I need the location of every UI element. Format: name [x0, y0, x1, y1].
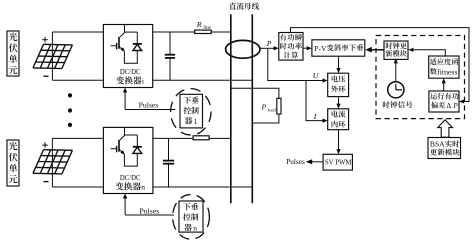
svg-text:Pulses: Pulses [139, 100, 159, 109]
svg-text:P: P [452, 101, 458, 110]
BSA dashed box [376, 36, 465, 119]
arrow cloop to svpwm [336, 130, 340, 155]
PV unit n label box [7, 140, 19, 186]
BSA block arrow [438, 120, 453, 137]
fitness text [430, 58, 458, 76]
svg-text:load: load [268, 107, 277, 112]
droop controller n dashed ellipse [173, 194, 210, 239]
clock update text [386, 42, 407, 56]
arrow fitness to clockupdate [408, 48, 445, 56]
label U [313, 71, 320, 80]
wire converter1 out bottom [153, 79, 253, 81]
fitness box [429, 56, 459, 78]
diode Dn [125, 135, 142, 153]
label Pulses out [286, 157, 305, 166]
PV unit 1 label box [7, 31, 19, 76]
feedback wire P to deltaP [291, 28, 470, 104]
svg-text:P: P [266, 39, 272, 48]
power sensor ellipse [226, 40, 260, 58]
load resistor Pload [277, 98, 281, 114]
PV1 plus terminal [42, 37, 48, 43]
solar panel PVn [33, 150, 72, 174]
svg-text:SV PWM: SV PWM [325, 158, 352, 167]
label DC/DC n [120, 173, 141, 182]
DC bus line left [230, 14, 232, 203]
svg-text:i: i [142, 77, 144, 86]
wire P measurement [260, 46, 279, 50]
svg-text:I: I [313, 112, 317, 121]
wire converter-n to Rline-n [153, 137, 193, 139]
DC bus line right [251, 14, 253, 203]
wire Rline1 to bus [211, 31, 231, 33]
svg-text:P: P [261, 103, 267, 112]
PVn minus terminal [44, 181, 49, 183]
label DC/DC 1 [120, 67, 141, 76]
resistor Rline-n [193, 136, 209, 140]
svg-text:Δ: Δ [446, 101, 451, 110]
arrow clock to clockupdate [394, 58, 398, 81]
svg-text:BSA: BSA [430, 140, 445, 149]
label Pulses n [140, 206, 160, 215]
svg-text:R: R [196, 20, 202, 29]
SV PWM text [325, 158, 352, 167]
svg-text:1: 1 [194, 117, 198, 126]
pulses wire 1 [123, 88, 175, 110]
voltage outer loop box [328, 73, 349, 96]
label Pload [261, 103, 277, 113]
load branch wire bottom [252, 114, 279, 123]
droop controller n text [183, 203, 198, 232]
svg-text:n: n [193, 223, 197, 232]
voltage outer loop text [331, 75, 345, 92]
PVn plus terminal [42, 142, 48, 148]
arrow clockupdate to droop-rate [365, 47, 384, 53]
wire converter-n out bottom [153, 186, 252, 188]
DC/DC converter 1 box [103, 25, 152, 88]
current inner loop box [328, 109, 349, 130]
wire converter1 to Rline [153, 31, 195, 33]
label P [266, 39, 272, 48]
DC/DC converter n box [103, 127, 152, 193]
clock update box [384, 41, 408, 59]
arrow calc to droop-rate [303, 46, 312, 50]
BSA box [428, 138, 461, 159]
droop controller 1 dashed ellipse [171, 89, 211, 135]
IGBT Qn [111, 127, 138, 166]
label converter 1 [116, 76, 144, 85]
ellipsis dots [68, 93, 72, 127]
svg-text:line: line [203, 25, 211, 31]
PV1 minus terminal [44, 75, 49, 77]
droop controller 1 text [184, 96, 199, 126]
arrow droop-rate to vloop [336, 56, 340, 73]
arrow vloop to cloop [336, 97, 340, 109]
svg-text:DC/DC: DC/DC [120, 173, 141, 182]
solar panel PV1 [33, 44, 72, 68]
resistor Rline1 [195, 30, 212, 33]
BSA text [430, 140, 460, 156]
svg-text:DC/DC: DC/DC [120, 67, 141, 76]
svg-text:Pulses: Pulses [140, 206, 160, 215]
svg-text:P-V: P-V [314, 44, 327, 53]
label Pulses 1 [139, 100, 159, 109]
P-V droop rate text [314, 44, 363, 53]
wire Rline-n to bus [209, 137, 231, 139]
wire PV1 vertical [51, 32, 53, 80]
label DC bus [229, 3, 259, 10]
load branch wire top [231, 88, 279, 98]
IGBT Q1 [111, 25, 138, 64]
wire PV1 plus to converter [52, 31, 103, 33]
wire PVn minus to converter [52, 186, 103, 188]
SV PWM box [323, 154, 352, 170]
droop controller 1 box [180, 94, 203, 128]
arrow deltaP to fitness [442, 78, 446, 91]
wire PVn plus to converter [52, 137, 103, 139]
arrow svpwm to pulses [306, 159, 324, 164]
wire I tap [306, 81, 328, 123]
capacitor Cn [163, 138, 174, 187]
capacitor C1 [165, 32, 175, 80]
label converter n [115, 182, 145, 191]
label I [313, 112, 317, 121]
power calc box [279, 33, 303, 61]
diode D1 [125, 32, 142, 50]
P-V droop rate box [312, 40, 365, 56]
clock icon [388, 82, 404, 98]
svg-text:n: n [141, 182, 145, 191]
running deltaP text [430, 93, 458, 110]
running deltaP box [429, 91, 459, 112]
label clock signal [383, 101, 413, 108]
svg-text:fitness: fitness [437, 68, 458, 76]
wire U tap [268, 48, 328, 82]
droop controller n box [179, 201, 203, 232]
label Rline1 [196, 20, 212, 31]
svg-text:Pulses: Pulses [286, 157, 305, 166]
current inner loop text [332, 110, 346, 127]
wire PV1 minus to converter [52, 79, 103, 81]
pulses wire n [123, 194, 174, 216]
wire PVn vertical [51, 138, 53, 187]
power calc text [280, 34, 302, 59]
